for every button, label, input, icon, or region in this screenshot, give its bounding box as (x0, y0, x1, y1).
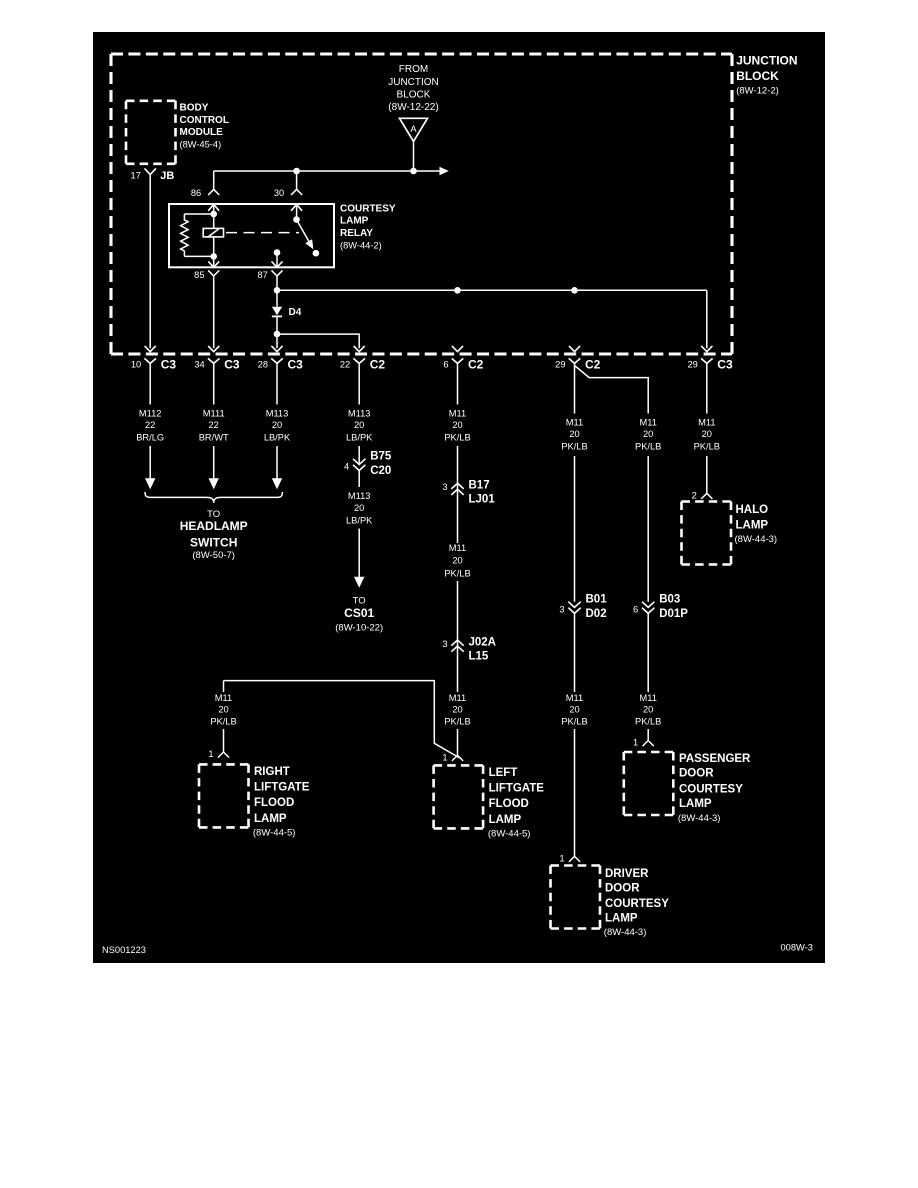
svg-text:PK/LB: PK/LB (444, 716, 470, 726)
svg-text:C20: C20 (370, 465, 391, 477)
driver door courtesy lamp label (604, 868, 669, 938)
lamp feed rail y290 (277, 289, 707, 291)
svg-text:M112: M112 (139, 409, 162, 419)
wire pin 85 to connector 34 C3 (213, 276, 215, 348)
connector 34 C3 (194, 346, 240, 372)
svg-text:FLOOD: FLOOD (254, 797, 294, 809)
connector 2 halo lamp (692, 491, 713, 501)
branch wire 29 C2 to passenger column (575, 366, 649, 414)
svg-text:LAMP: LAMP (340, 216, 369, 227)
svg-text:D02: D02 (586, 608, 607, 620)
svg-text:DOOR: DOOR (679, 768, 714, 780)
wire col8 upper (706, 363, 708, 413)
svg-text:M11: M11 (449, 543, 466, 553)
svg-text:C3: C3 (161, 357, 177, 371)
svg-text:(8W-44-3): (8W-44-3) (735, 534, 778, 545)
svg-text:LEFT: LEFT (489, 767, 518, 779)
svg-text:LB/PK: LB/PK (346, 515, 373, 525)
svg-text:17: 17 (131, 171, 141, 181)
wire col5 mid2 (457, 581, 459, 692)
wire label M11 20 PK/LB passenger door (635, 693, 661, 727)
wire col1 lower (149, 446, 151, 479)
svg-text:M113: M113 (348, 491, 371, 501)
svg-text:29: 29 (687, 360, 697, 370)
svg-text:BLOCK: BLOCK (736, 69, 779, 83)
wire label M11 20 PK/LB col5 mid (444, 543, 470, 578)
svg-text:28: 28 (258, 360, 268, 370)
svg-text:JB: JB (160, 170, 174, 182)
svg-text:M11: M11 (215, 693, 232, 703)
svg-text:MODULE: MODULE (180, 127, 224, 138)
connector J02A L15 (442, 636, 496, 662)
svg-text:M113: M113 (348, 409, 371, 419)
svg-text:PK/LB: PK/LB (635, 716, 661, 726)
wire col8 to halo lamp (706, 456, 708, 493)
svg-text:COURTESY: COURTESY (679, 783, 743, 795)
svg-text:C2: C2 (468, 357, 484, 371)
node branch y334 (274, 331, 281, 338)
svg-text:20: 20 (452, 420, 462, 430)
svg-text:PASSENGER: PASSENGER (679, 753, 751, 765)
wire col3 lower (276, 446, 278, 479)
svg-text:RELAY: RELAY (340, 228, 373, 239)
wire BCM to connector 10 C3 (149, 175, 151, 349)
svg-text:LB/PK: LB/PK (346, 432, 373, 442)
svg-text:RIGHT: RIGHT (254, 766, 290, 778)
svg-text:20: 20 (354, 503, 364, 513)
wire label M113 20 LB/PK (264, 409, 291, 443)
svg-text:20: 20 (569, 429, 579, 439)
svg-text:(8W-44-5): (8W-44-5) (253, 827, 296, 838)
relay switch arm (297, 220, 310, 244)
resistor bottom lead (184, 255, 213, 257)
wire col5 upper (457, 363, 459, 404)
svg-text:LIFTGATE: LIFTGATE (489, 782, 545, 794)
svg-text:COURTESY: COURTESY (605, 898, 669, 910)
svg-text:29: 29 (555, 360, 565, 370)
wire col6 upper (574, 363, 576, 413)
relay pin 87 (257, 261, 282, 279)
wire label M112 22 BR/LG (136, 409, 164, 443)
svg-text:M11: M11 (566, 417, 583, 427)
svg-text:86: 86 (191, 188, 201, 198)
wire col7 lower (647, 613, 649, 692)
svg-text:COURTESY: COURTESY (340, 203, 396, 214)
connector 29 C2 (555, 346, 601, 372)
resistor top lead (184, 213, 213, 215)
svg-text:M11: M11 (639, 693, 656, 703)
svg-text:(8W-45-4): (8W-45-4) (180, 140, 222, 150)
svg-text:BODY: BODY (180, 103, 209, 114)
svg-text:M11: M11 (449, 409, 466, 419)
svg-text:BR/WT: BR/WT (199, 432, 229, 442)
svg-text:PK/LB: PK/LB (444, 432, 470, 442)
svg-text:20: 20 (354, 420, 364, 430)
svg-text:30: 30 (274, 188, 284, 198)
svg-text:M113: M113 (266, 409, 289, 419)
svg-text:2: 2 (692, 491, 697, 501)
svg-text:LIFTGATE: LIFTGATE (254, 781, 310, 793)
node coil bottom (210, 253, 217, 260)
node at rail x413 (410, 168, 417, 175)
svg-text:M111: M111 (203, 409, 225, 419)
relay pin 87 inner wire (274, 249, 281, 267)
left liftgate flood lamp label (488, 767, 544, 840)
svg-text:BR/LG: BR/LG (136, 432, 164, 442)
connector 6 C2 (443, 346, 483, 372)
arrow right end of rail (440, 167, 449, 176)
wire triangle A down to top rail (413, 142, 415, 172)
wire col7 to passenger door lamp (647, 729, 649, 741)
connector 28 C3 (258, 346, 304, 372)
relay label (340, 203, 396, 250)
svg-text:3: 3 (559, 604, 564, 614)
wire label M11 20 PK/LB col5 (444, 409, 470, 443)
wire label M11 20 PK/LB col6 (561, 417, 587, 451)
halo lamp box (682, 502, 732, 565)
feed triangle A (400, 118, 428, 141)
svg-text:20: 20 (218, 705, 228, 715)
svg-text:20: 20 (452, 705, 462, 715)
svg-text:D4: D4 (289, 307, 302, 318)
svg-text:(8W-44-5): (8W-44-5) (488, 828, 531, 839)
wire col7 mid (647, 456, 649, 602)
svg-text:1: 1 (559, 854, 564, 864)
wire rail to relay pin 86 (213, 171, 215, 189)
headlamp switch label (180, 509, 248, 561)
CS01 label (335, 596, 383, 634)
relay pin 85 (194, 261, 219, 279)
svg-text:SWITCH: SWITCH (190, 536, 237, 550)
svg-text:M11: M11 (566, 693, 583, 703)
svg-text:(8W-50-7): (8W-50-7) (192, 550, 235, 561)
svg-text:JUNCTION: JUNCTION (388, 77, 439, 88)
svg-text:M11: M11 (639, 417, 656, 427)
node lamp feed rail (274, 287, 281, 294)
svg-text:PK/LB: PK/LB (444, 568, 470, 578)
wire col5 mid1 (457, 446, 459, 543)
svg-text:B75: B75 (370, 451, 392, 463)
svg-text:B03: B03 (659, 593, 680, 605)
wire label M113 20 LB/PK mid (346, 491, 373, 525)
svg-text:10: 10 (131, 360, 141, 370)
wire rail to relay pin 30 (296, 171, 298, 189)
svg-text:PK/LB: PK/LB (694, 442, 720, 452)
connector 22 C2 (340, 346, 386, 372)
svg-text:LAMP: LAMP (254, 813, 287, 825)
node switch contact (313, 250, 320, 257)
svg-text:1: 1 (633, 738, 638, 748)
wire label M11 20 PK/LB left liftgate (444, 693, 470, 727)
svg-text:A: A (410, 124, 417, 134)
svg-text:B17: B17 (469, 480, 490, 492)
svg-text:LJ01: LJ01 (469, 494, 496, 506)
courtesy lamp relay box (169, 204, 334, 267)
svg-text:C3: C3 (288, 357, 304, 371)
svg-text:M11: M11 (449, 693, 466, 703)
arrow col2 (209, 478, 219, 489)
svg-text:22: 22 (340, 360, 350, 370)
svg-text:(8W-44-2): (8W-44-2) (340, 241, 382, 251)
relay coil branch vertical (213, 204, 215, 267)
svg-text:BLOCK: BLOCK (397, 89, 431, 100)
connector 29 C3 (687, 346, 733, 372)
svg-text:(8W-12-2): (8W-12-2) (736, 85, 779, 96)
arrow col1 (145, 478, 155, 489)
svg-text:20: 20 (643, 705, 653, 715)
svg-text:C3: C3 (717, 357, 733, 371)
connector B75 C20 (344, 451, 392, 478)
svg-text:22: 22 (209, 420, 219, 430)
wire col6 to driver door lamp (574, 729, 576, 856)
svg-text:C2: C2 (585, 357, 601, 371)
svg-text:LB/PK: LB/PK (264, 432, 291, 442)
top supply rail (214, 170, 441, 172)
diode D4 (272, 307, 302, 318)
wire col4 to CS01 (358, 529, 360, 578)
black diagram panel (93, 32, 825, 963)
node coil top (210, 211, 217, 218)
connector 1 passenger door (633, 738, 654, 748)
wire col3 upper (276, 363, 278, 404)
svg-text:NS001223: NS001223 (102, 945, 146, 955)
svg-text:008W-3: 008W-3 (781, 943, 813, 953)
svg-text:20: 20 (452, 555, 462, 565)
svg-text:L15: L15 (469, 651, 489, 663)
svg-text:22: 22 (145, 420, 155, 430)
svg-text:20: 20 (702, 429, 712, 439)
connector 1 driver door (559, 854, 580, 864)
connector 1 right liftgate (208, 749, 229, 759)
passenger door courtesy lamp box (624, 752, 674, 815)
connector 17 JB below BCM (131, 168, 175, 182)
wire col2 lower (213, 446, 215, 479)
arrow CS01 (354, 577, 364, 588)
passenger door courtesy lamp label (678, 753, 751, 824)
svg-text:20: 20 (272, 420, 282, 430)
body control module label (180, 103, 229, 150)
connector B03 D01P (633, 593, 688, 620)
wire col6 mid (574, 456, 576, 602)
junction block dashed border (111, 54, 732, 354)
svg-text:FLOOD: FLOOD (489, 798, 529, 810)
svg-text:CS01: CS01 (344, 606, 374, 620)
connector B17 LJ01 (442, 480, 495, 506)
relay pin 86 (191, 188, 219, 211)
svg-text:85: 85 (194, 270, 204, 280)
node switch pivot (293, 216, 300, 223)
svg-text:D01P: D01P (659, 608, 688, 620)
svg-text:DRIVER: DRIVER (605, 868, 649, 880)
wire B75 down (358, 470, 360, 487)
driver door courtesy lamp box (551, 866, 601, 929)
svg-text:LAMP: LAMP (489, 814, 522, 826)
wire right liftgate upper (223, 681, 225, 692)
svg-text:1: 1 (442, 753, 447, 763)
svg-text:C3: C3 (224, 357, 240, 371)
svg-text:6: 6 (633, 604, 638, 614)
junction block label (736, 54, 797, 97)
svg-text:PK/LB: PK/LB (561, 442, 587, 452)
node at rail x297 (293, 168, 300, 175)
arrow col3 (272, 478, 282, 489)
wire col4 upper (358, 363, 360, 404)
svg-text:PK/LB: PK/LB (635, 442, 661, 452)
wire col2 upper (213, 363, 215, 404)
node rail x574 (571, 287, 578, 294)
wire col6 lower (574, 613, 576, 692)
svg-text:J02A: J02A (469, 636, 497, 648)
connector 10 C3 (131, 346, 177, 372)
node rail x457 (454, 287, 461, 294)
svg-text:1: 1 (208, 749, 213, 759)
svg-text:87: 87 (257, 270, 267, 280)
svg-text:HALO: HALO (736, 504, 769, 516)
svg-text:(8W-44-3): (8W-44-3) (678, 813, 721, 824)
svg-text:B01: B01 (586, 593, 608, 605)
svg-text:DOOR: DOOR (605, 882, 640, 894)
svg-text:HEADLAMP: HEADLAMP (180, 519, 248, 533)
svg-text:4: 4 (344, 462, 349, 472)
svg-text:M11: M11 (698, 417, 715, 427)
wire rail down to connector 29 C3 (706, 290, 708, 348)
wire label M111 22 BR/WT (199, 409, 229, 443)
svg-text:FROM: FROM (399, 64, 428, 75)
right liftgate flood lamp box (199, 764, 249, 827)
svg-text:JUNCTION: JUNCTION (736, 54, 797, 68)
svg-text:LAMP: LAMP (679, 798, 712, 810)
svg-text:3: 3 (442, 482, 447, 492)
svg-text:34: 34 (194, 360, 204, 370)
svg-text:6: 6 (443, 360, 448, 370)
svg-text:C2: C2 (370, 357, 386, 371)
svg-text:(8W-44-3): (8W-44-3) (604, 927, 647, 938)
wire label M11 20 PK/LB right liftgate (210, 693, 236, 727)
svg-text:(8W-10-22): (8W-10-22) (335, 623, 383, 634)
wire col4 to B75 (358, 446, 360, 464)
FROM JUNCTION BLOCK label (388, 64, 439, 113)
brace to headlamp switch (145, 492, 282, 503)
wire right liftgate lower (223, 729, 225, 752)
relay pin 30 (274, 188, 302, 211)
branch wire to right liftgate lamp (224, 681, 460, 758)
halo lamp label (735, 504, 778, 545)
svg-text:CONTROL: CONTROL (180, 115, 229, 126)
wire col5 to left liftgate lamp (457, 729, 459, 755)
svg-text:LAMP: LAMP (605, 913, 638, 925)
svg-text:20: 20 (643, 429, 653, 439)
right liftgate flood lamp label (253, 766, 310, 839)
connector 1 left liftgate (442, 753, 463, 763)
wire diode to node (276, 316, 278, 348)
wire col1 upper (149, 363, 151, 404)
svg-text:LAMP: LAMP (736, 519, 769, 531)
wire label M11 20 PK/LB driver door (561, 693, 587, 727)
connector B01 D02 (559, 593, 607, 620)
svg-text:PK/LB: PK/LB (561, 716, 587, 726)
left liftgate flood lamp box (434, 765, 484, 828)
relay coil symbol (203, 228, 223, 237)
coil to contact dashed link (226, 232, 299, 234)
branch wire y334 to x359 (277, 334, 359, 348)
resistor zigzag (181, 214, 189, 256)
svg-text:PK/LB: PK/LB (210, 716, 236, 726)
svg-text:20: 20 (569, 705, 579, 715)
wire label M11 20 PK/LB col7 (635, 417, 661, 451)
body control module BCM dashed box (126, 101, 176, 164)
wire pin 87 down (276, 276, 278, 307)
wire label M11 20 PK/LB col8 (694, 417, 720, 451)
svg-text:3: 3 (442, 639, 447, 649)
svg-text:(8W-12-22): (8W-12-22) (388, 102, 438, 113)
relay pin 30 inner wire (296, 204, 298, 219)
wire label M113 20 LB/PK col4 (346, 409, 373, 443)
